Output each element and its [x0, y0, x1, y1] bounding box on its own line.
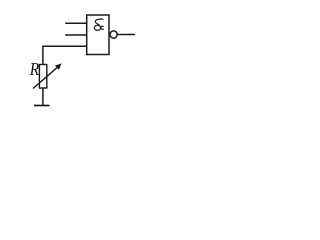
gate function label &	[94, 19, 103, 30]
svg-text:R: R	[29, 59, 39, 79]
terminal bar	[34, 105, 50, 107]
output inversion bubble	[110, 31, 117, 38]
resistor R1 body	[39, 65, 46, 89]
wire output	[117, 34, 135, 36]
wire input 3 (from resistor node)	[43, 46, 87, 64]
gate body U1 (IEC NAND rectangle)	[87, 15, 109, 55]
wire input 1	[65, 22, 87, 24]
wire resistor bottom lead	[42, 88, 44, 106]
variable-resistor arrowhead	[55, 63, 62, 70]
variable-resistor arrow shaft	[33, 66, 59, 88]
wire input 2	[65, 34, 87, 36]
